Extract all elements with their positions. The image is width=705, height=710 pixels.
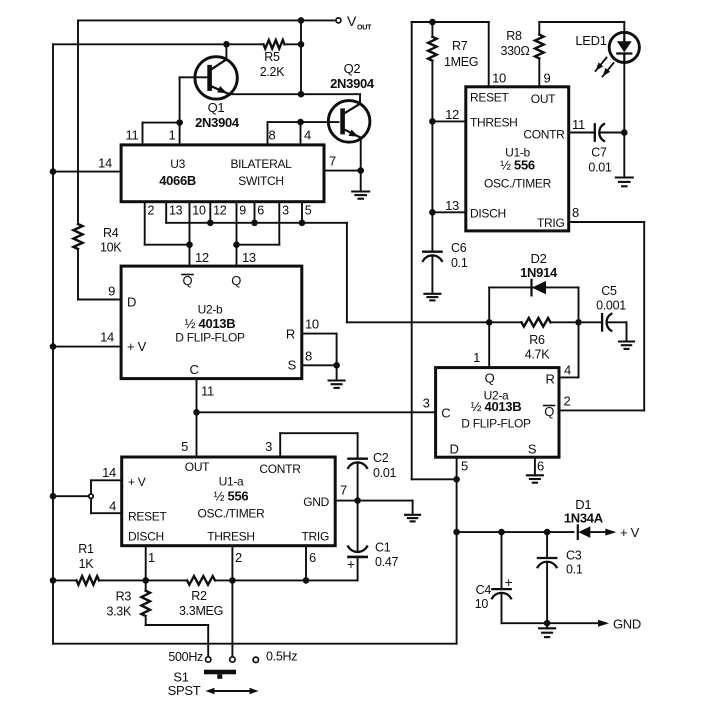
svg-text:11: 11	[201, 384, 214, 399]
svg-text:9: 9	[108, 284, 115, 299]
svg-text:R: R	[545, 372, 554, 387]
svg-text:DISCH: DISCH	[128, 530, 164, 544]
svg-text:3: 3	[282, 204, 289, 218]
svg-text:GND: GND	[613, 617, 641, 632]
svg-text:DISCH: DISCH	[470, 207, 506, 221]
svg-text:C4: C4	[476, 583, 492, 597]
svg-text:2N3904: 2N3904	[330, 76, 375, 91]
svg-text:C6: C6	[451, 241, 467, 255]
svg-text:1K: 1K	[79, 557, 95, 571]
svg-text:Q1: Q1	[208, 100, 225, 115]
svg-text:13: 13	[169, 204, 183, 218]
svg-text:3: 3	[265, 439, 272, 454]
svg-text:4: 4	[109, 499, 116, 514]
svg-text:C7: C7	[591, 146, 607, 160]
svg-text:OUT: OUT	[185, 460, 210, 474]
svg-text:C: C	[441, 406, 450, 421]
svg-text:THRESH: THRESH	[470, 116, 518, 130]
svg-text:0.5Hz: 0.5Hz	[266, 650, 297, 664]
svg-text:LED1: LED1	[575, 33, 606, 48]
svg-text:R6: R6	[529, 333, 545, 347]
svg-text:2: 2	[235, 550, 242, 565]
svg-text:12: 12	[445, 107, 459, 122]
svg-text:13: 13	[445, 198, 459, 213]
svg-text:8: 8	[572, 205, 579, 220]
svg-text:6: 6	[309, 550, 316, 565]
svg-text:R5: R5	[264, 50, 280, 64]
svg-text:10: 10	[475, 597, 489, 611]
svg-text:14: 14	[98, 156, 112, 171]
svg-text:9: 9	[239, 204, 246, 218]
svg-text:0.01: 0.01	[373, 466, 396, 480]
svg-text:11: 11	[126, 128, 139, 143]
svg-text:5: 5	[461, 459, 468, 474]
svg-text:5: 5	[181, 439, 188, 454]
svg-text:3: 3	[423, 396, 430, 411]
svg-text:9: 9	[544, 71, 551, 86]
svg-text:R8: R8	[506, 29, 522, 43]
svg-text:D2: D2	[530, 251, 546, 266]
svg-text:SPST: SPST	[168, 683, 201, 698]
svg-text:OSC./TIMER: OSC./TIMER	[484, 177, 552, 191]
svg-text:0.001: 0.001	[596, 299, 626, 313]
svg-text:C1: C1	[375, 541, 391, 555]
svg-text:+ V: + V	[620, 525, 640, 540]
svg-text:Q: Q	[485, 371, 495, 386]
svg-text:1: 1	[169, 128, 176, 143]
svg-text:R: R	[286, 327, 295, 342]
svg-text:0.1: 0.1	[451, 256, 468, 270]
svg-text:R7: R7	[452, 39, 468, 53]
svg-text:14: 14	[100, 330, 114, 345]
svg-text:BILATERAL: BILATERAL	[230, 157, 292, 171]
svg-text:330Ω: 330Ω	[500, 44, 529, 58]
svg-text:SWITCH: SWITCH	[238, 174, 284, 188]
svg-text:R1: R1	[78, 542, 94, 556]
svg-text:2.2K: 2.2K	[260, 65, 285, 79]
svg-text:½ 4013B: ½ 4013B	[185, 316, 236, 331]
svg-text:U1-a: U1-a	[219, 475, 244, 489]
svg-text:D FLIP-FLOP: D FLIP-FLOP	[175, 331, 245, 345]
svg-text:8: 8	[305, 349, 312, 364]
svg-text:12: 12	[213, 204, 227, 218]
svg-text:GND: GND	[303, 495, 329, 509]
svg-text:C5: C5	[601, 284, 617, 298]
svg-text:Q2: Q2	[344, 61, 361, 76]
svg-text:+: +	[505, 575, 513, 590]
svg-text:S: S	[288, 358, 297, 373]
svg-text:4.7K: 4.7K	[525, 348, 550, 362]
svg-text:2: 2	[564, 394, 571, 409]
svg-text:10: 10	[192, 204, 206, 218]
svg-text:TRIG: TRIG	[302, 530, 329, 544]
svg-text:0.1: 0.1	[566, 563, 583, 577]
svg-text:THRESH: THRESH	[207, 530, 255, 544]
svg-text:1MEG: 1MEG	[444, 55, 478, 69]
svg-text:3.3K: 3.3K	[106, 605, 131, 619]
svg-text:6: 6	[537, 459, 544, 474]
svg-text:OUT: OUT	[357, 23, 372, 32]
svg-text:13: 13	[242, 250, 256, 265]
svg-text:CONTR: CONTR	[523, 128, 565, 142]
svg-text:RESET: RESET	[470, 91, 509, 105]
svg-text:RESET: RESET	[128, 510, 167, 524]
svg-text:0.47: 0.47	[375, 555, 398, 569]
svg-text:C: C	[189, 362, 198, 377]
svg-text:D: D	[127, 295, 136, 310]
svg-text:R2: R2	[191, 589, 207, 603]
svg-text:U2-b: U2-b	[198, 303, 223, 317]
svg-text:500Hz: 500Hz	[168, 650, 203, 664]
svg-text:½ 556: ½ 556	[500, 158, 535, 173]
svg-text:7: 7	[340, 483, 347, 498]
svg-text:OSC./TIMER: OSC./TIMER	[197, 507, 265, 521]
svg-text:V: V	[347, 13, 357, 29]
svg-text:2N3904: 2N3904	[195, 115, 240, 130]
svg-text:1N914: 1N914	[520, 265, 558, 280]
svg-text:4066B: 4066B	[159, 173, 196, 188]
svg-text:0.01: 0.01	[588, 161, 611, 175]
svg-text:12: 12	[195, 250, 209, 265]
svg-text:CONTR: CONTR	[259, 462, 301, 476]
svg-text:11: 11	[572, 117, 585, 132]
svg-text:10: 10	[305, 317, 319, 332]
svg-text:10: 10	[492, 71, 506, 86]
svg-text:D: D	[449, 442, 458, 457]
svg-text:½ 556: ½ 556	[214, 489, 249, 504]
svg-text:R3: R3	[116, 590, 132, 604]
svg-text:S: S	[528, 442, 537, 457]
svg-text:2: 2	[148, 204, 155, 218]
svg-text:R4: R4	[103, 226, 119, 240]
svg-text:10K: 10K	[100, 241, 122, 255]
svg-text:½ 4013B: ½ 4013B	[471, 399, 522, 414]
svg-text:Q: Q	[231, 273, 241, 288]
svg-text:1: 1	[473, 350, 480, 365]
svg-text:8: 8	[269, 128, 276, 143]
svg-text:6: 6	[257, 204, 264, 218]
svg-text:+: +	[347, 557, 355, 572]
svg-text:OUT: OUT	[531, 92, 556, 106]
svg-text:C3: C3	[566, 549, 582, 563]
svg-text:D FLIP-FLOP: D FLIP-FLOP	[461, 417, 531, 431]
svg-text:TRIG: TRIG	[537, 216, 564, 230]
svg-text:U3: U3	[170, 157, 185, 171]
svg-text:14: 14	[102, 465, 116, 480]
svg-text:+ V: + V	[128, 475, 146, 489]
svg-text:+ V: + V	[127, 339, 147, 354]
svg-text:4: 4	[564, 363, 571, 378]
svg-text:C2: C2	[373, 451, 389, 465]
svg-text:1: 1	[148, 550, 155, 565]
svg-text:4: 4	[304, 128, 311, 143]
svg-text:5: 5	[305, 204, 312, 218]
svg-text:1N34A: 1N34A	[564, 511, 604, 526]
svg-text:7: 7	[329, 154, 336, 169]
svg-text:3.3MEG: 3.3MEG	[179, 604, 223, 618]
